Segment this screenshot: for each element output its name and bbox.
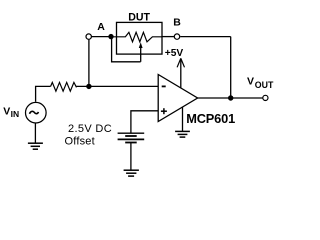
svg-text:MCP601: MCP601 xyxy=(186,111,235,126)
svg-text:B: B xyxy=(173,17,181,29)
svg-text:DUT: DUT xyxy=(128,11,150,23)
DUT box xyxy=(117,22,163,54)
wire: top rail from input terminal to node A xyxy=(92,36,113,38)
svg-text:+5V: +5V xyxy=(165,48,184,59)
potentiometer wiper arrow xyxy=(139,42,143,48)
+5V supply arrow xyxy=(180,58,182,87)
op-amp inverting pin marker xyxy=(162,85,166,87)
junction: lower rail node xyxy=(86,84,91,89)
wire: op-amp output to VOUT terminal xyxy=(198,97,263,99)
junction: output node xyxy=(228,95,233,100)
wire: right vertical feedback drop to output xyxy=(230,37,232,98)
svg-text:IN: IN xyxy=(11,109,20,119)
svg-text:OUT: OUT xyxy=(255,80,274,90)
resistor (DUT potentiometer element) xyxy=(111,32,162,42)
node B terminal (open circle) xyxy=(174,34,179,39)
ground: below VIN source xyxy=(34,124,36,144)
node A (junction dot) xyxy=(108,34,113,39)
svg-text:2.5V DC: 2.5V DC xyxy=(68,123,112,135)
source VIN (sine source circle) xyxy=(26,102,47,123)
terminal: VOUT open circle xyxy=(263,95,268,100)
battery: 2.5V DC offset source xyxy=(118,132,145,134)
op-amp non-inverting pin marker xyxy=(161,110,167,112)
op-amp U1 MCP601 xyxy=(158,75,197,122)
wire: VIN up and right to resistor R1 xyxy=(36,86,51,101)
resistor R1 xyxy=(51,82,89,91)
wire: DUT box right to node B xyxy=(162,36,174,38)
wire: battery to ground xyxy=(130,143,132,171)
svg-text:Offset: Offset xyxy=(65,135,95,147)
wire: node B to top-right corner xyxy=(180,36,231,38)
svg-text:A: A xyxy=(97,21,105,33)
wire: lower rail junction to op-amp inverting input xyxy=(89,85,158,87)
wire: vertical from input terminal down to lower rail junction xyxy=(88,39,90,86)
wire: wiper return loop (down from node A, right, up to wiper) xyxy=(112,37,141,62)
terminal: open circle at left of node A xyxy=(86,34,91,39)
svg-text:V: V xyxy=(3,105,10,117)
svg-text:V: V xyxy=(247,75,254,87)
wire: op-amp non-inverting input left then down to battery xyxy=(131,111,158,133)
ground: below battery xyxy=(124,169,139,171)
ground: op-amp negative supply xyxy=(182,107,184,132)
